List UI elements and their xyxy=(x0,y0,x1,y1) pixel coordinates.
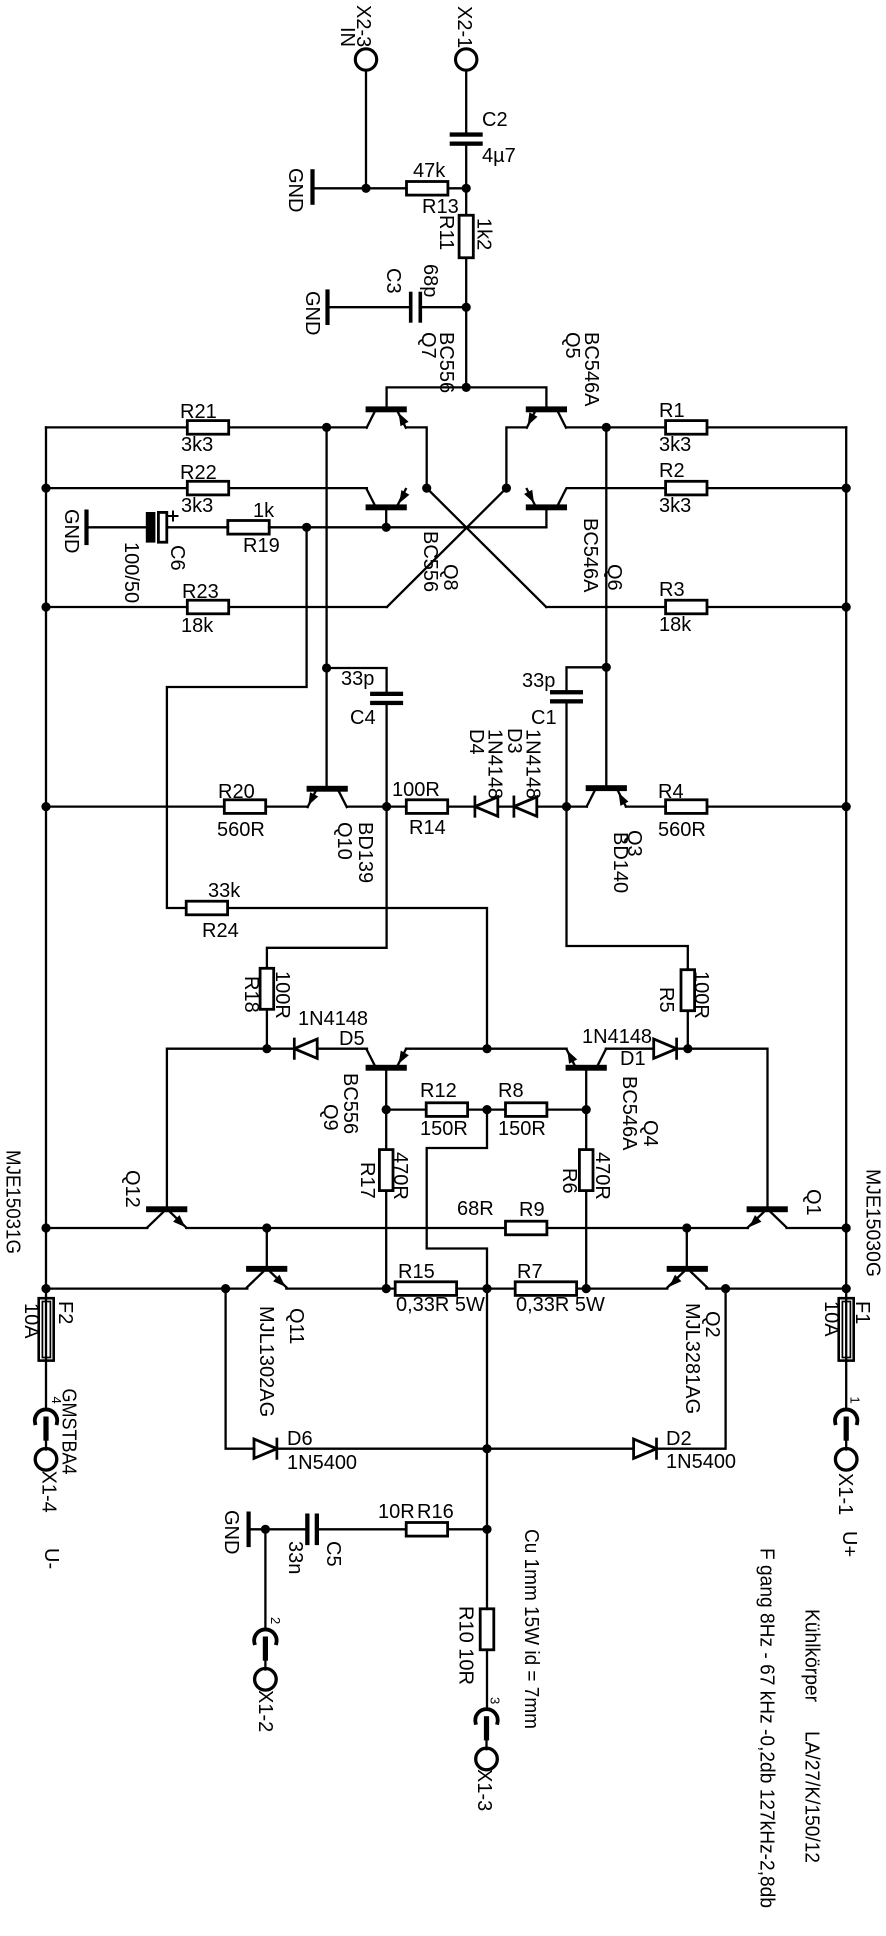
svg-text:D5: D5 xyxy=(339,1028,365,1050)
svg-text:MJE15031G: MJE15031G xyxy=(2,1150,24,1254)
svg-text:R5: R5 xyxy=(655,987,677,1013)
svg-text:D2: D2 xyxy=(666,1428,692,1450)
svg-text:R24: R24 xyxy=(202,920,239,942)
svg-text:R7: R7 xyxy=(517,1261,543,1283)
svg-text:Q5: Q5 xyxy=(561,332,583,359)
svg-text:1: 1 xyxy=(848,1397,863,1404)
svg-text:1N4148: 1N4148 xyxy=(298,1008,368,1030)
svg-text:47k: 47k xyxy=(413,160,446,182)
svg-text:Q1: Q1 xyxy=(802,1189,824,1216)
svg-text:GND: GND xyxy=(220,1510,242,1554)
svg-text:R16: R16 xyxy=(417,1501,454,1523)
svg-text:R12: R12 xyxy=(420,1080,457,1102)
svg-text:4: 4 xyxy=(49,1397,64,1404)
svg-text:Q2: Q2 xyxy=(701,1311,723,1338)
svg-text:D1: D1 xyxy=(620,1048,646,1070)
svg-text:BD139: BD139 xyxy=(354,822,376,883)
svg-text:18k: 18k xyxy=(659,614,692,636)
svg-text:Q4: Q4 xyxy=(639,1120,661,1147)
svg-text:100/50: 100/50 xyxy=(120,542,142,603)
svg-text:R21: R21 xyxy=(180,401,217,423)
svg-text:68p: 68p xyxy=(419,264,441,297)
svg-text:100R: 100R xyxy=(392,779,440,801)
svg-text:X1-1: X1-1 xyxy=(834,1473,856,1515)
svg-text:R2: R2 xyxy=(659,460,685,482)
svg-text:0,33R 5W: 0,33R 5W xyxy=(396,1294,485,1316)
svg-text:BC556: BC556 xyxy=(339,1073,361,1134)
svg-text:150R: 150R xyxy=(420,1118,468,1140)
svg-text:33p: 33p xyxy=(522,670,555,692)
svg-text:R1: R1 xyxy=(659,400,685,422)
svg-text:3: 3 xyxy=(488,1697,503,1704)
svg-text:10A: 10A xyxy=(820,1301,842,1337)
svg-text:BC556: BC556 xyxy=(419,531,441,592)
svg-text:R10 10R: R10 10R xyxy=(455,1606,477,1685)
svg-text:1N4148: 1N4148 xyxy=(582,1026,652,1048)
svg-text:LA/27/K/150/12: LA/27/K/150/12 xyxy=(801,1731,823,1863)
svg-text:MJL1302AG: MJL1302AG xyxy=(255,1306,277,1417)
svg-text:BC556: BC556 xyxy=(435,332,457,393)
svg-text:R11: R11 xyxy=(435,215,457,250)
svg-text:R23: R23 xyxy=(182,581,219,603)
svg-text:F2: F2 xyxy=(54,1301,76,1324)
svg-text:C6: C6 xyxy=(166,545,188,571)
svg-text:3k3: 3k3 xyxy=(181,434,213,456)
svg-text:X1-4: X1-4 xyxy=(38,1471,60,1513)
svg-text:0,33R 5W: 0,33R 5W xyxy=(516,1294,605,1316)
svg-text:R17: R17 xyxy=(356,1162,378,1199)
svg-text:470R: 470R xyxy=(389,1152,411,1200)
svg-text:10R: 10R xyxy=(378,1501,415,1523)
svg-text:BC546A: BC546A xyxy=(579,518,601,593)
svg-text:R14: R14 xyxy=(409,817,446,839)
svg-text:C5: C5 xyxy=(322,1541,344,1567)
svg-text:BD140: BD140 xyxy=(609,832,631,893)
svg-text:Q8: Q8 xyxy=(439,564,461,591)
svg-text:GND: GND xyxy=(60,509,82,553)
svg-text:Q9: Q9 xyxy=(319,1104,341,1131)
svg-text:Cu 1mm 15W id = 7mm: Cu 1mm 15W id = 7mm xyxy=(520,1529,542,1729)
svg-text:33n: 33n xyxy=(284,1541,306,1574)
svg-text:Q11: Q11 xyxy=(285,1308,307,1344)
svg-text:R9: R9 xyxy=(519,1199,545,1221)
svg-text:R3: R3 xyxy=(659,579,685,601)
svg-text:R20: R20 xyxy=(218,781,255,803)
svg-text:1N4148: 1N4148 xyxy=(484,729,506,799)
svg-text:C3: C3 xyxy=(382,268,404,294)
svg-text:100R: 100R xyxy=(271,971,293,1019)
svg-text:4µ7: 4µ7 xyxy=(482,145,516,167)
svg-text:IN: IN xyxy=(336,27,358,47)
svg-text:33k: 33k xyxy=(208,880,241,902)
svg-text:F1: F1 xyxy=(851,1301,873,1324)
svg-text:BC546A: BC546A xyxy=(580,332,602,407)
svg-text:18k: 18k xyxy=(181,615,214,637)
svg-text:1k: 1k xyxy=(253,500,275,522)
svg-text:D6: D6 xyxy=(287,1428,313,1450)
svg-text:R15: R15 xyxy=(398,1261,435,1283)
svg-text:Q6: Q6 xyxy=(603,564,625,591)
svg-text:3k3: 3k3 xyxy=(181,495,213,517)
svg-text:U+: U+ xyxy=(838,1531,860,1557)
svg-text:Kühlkörper: Kühlkörper xyxy=(801,1609,823,1702)
svg-text:C1: C1 xyxy=(531,707,557,729)
svg-text:R6: R6 xyxy=(558,1168,580,1194)
svg-text:F gang 8Hz - 67 kHz -0,2db 127: F gang 8Hz - 67 kHz -0,2db 127kHz-2,8db xyxy=(756,1548,778,1908)
svg-text:GND: GND xyxy=(284,168,306,212)
svg-text:GND: GND xyxy=(301,291,323,335)
svg-text:68R: 68R xyxy=(457,1198,494,1220)
svg-text:1N5400: 1N5400 xyxy=(666,1451,736,1473)
svg-text:Q12: Q12 xyxy=(121,1170,143,1208)
svg-text:560R: 560R xyxy=(658,819,706,841)
svg-text:X1-3: X1-3 xyxy=(473,1769,495,1811)
svg-text:X2-1: X2-1 xyxy=(453,6,475,48)
svg-text:R19: R19 xyxy=(243,535,280,557)
svg-text:R22: R22 xyxy=(180,462,217,484)
svg-text:2: 2 xyxy=(268,1617,283,1624)
svg-text:1N4148: 1N4148 xyxy=(522,729,544,799)
svg-text:R8: R8 xyxy=(498,1080,524,1102)
svg-text:Q10: Q10 xyxy=(333,822,355,860)
svg-text:100R: 100R xyxy=(690,971,712,1019)
svg-text:3k3: 3k3 xyxy=(659,434,691,456)
svg-text:MJE15030G: MJE15030G xyxy=(862,1169,884,1277)
svg-text:1N5400: 1N5400 xyxy=(287,1452,357,1474)
svg-text:X1-2: X1-2 xyxy=(254,1690,276,1732)
svg-text:3k3: 3k3 xyxy=(659,495,691,517)
svg-text:C4: C4 xyxy=(350,707,376,729)
svg-text:BC546A: BC546A xyxy=(618,1076,640,1151)
svg-text:1k2: 1k2 xyxy=(473,218,495,250)
svg-text:U-: U- xyxy=(40,1548,62,1569)
svg-text:10A: 10A xyxy=(20,1303,42,1339)
svg-text:150R: 150R xyxy=(498,1118,546,1140)
svg-text:R18: R18 xyxy=(240,976,262,1013)
svg-text:R4: R4 xyxy=(658,781,684,803)
svg-text:MJL3281AG: MJL3281AG xyxy=(681,1303,703,1414)
svg-text:33p: 33p xyxy=(341,668,374,690)
svg-text:560R: 560R xyxy=(217,819,265,841)
svg-text:470R: 470R xyxy=(591,1152,613,1200)
svg-text:C2: C2 xyxy=(482,109,508,131)
